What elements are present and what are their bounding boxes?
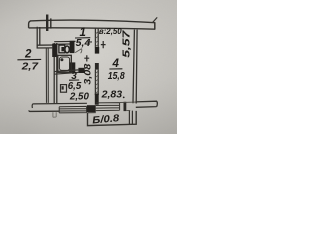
balcony box top edge xyxy=(88,112,96,114)
hallway left wall (room 2) xyxy=(37,27,40,49)
shaft double line left of kitchen xyxy=(46,48,48,103)
room 4 right wall xyxy=(133,30,137,104)
cross tick near room1 bottom xyxy=(84,55,89,61)
bathtub drain xyxy=(60,58,63,61)
svg-text:5,4: 5,4 xyxy=(76,38,91,49)
hallway bottom wall xyxy=(37,45,55,48)
bottom wall bottom line xyxy=(29,110,59,111)
balcony divider double line xyxy=(129,111,132,125)
top wall right break tick xyxy=(153,17,158,22)
top wall thick tick mark 1 xyxy=(46,15,48,32)
left wall faint protrusion below bottom wall xyxy=(53,112,56,117)
svg-text:15,8: 15,8 xyxy=(108,70,125,82)
top wall inner line xyxy=(29,28,155,29)
bathroom left outer wall xyxy=(54,43,57,104)
bathtub outer xyxy=(58,55,72,72)
kitchen/room1 partition black pier xyxy=(78,68,84,73)
balcony window frame xyxy=(96,103,120,111)
bottom wall black pier left of main wall xyxy=(87,105,96,112)
room 4 label underline xyxy=(109,68,122,70)
balcony door jamb dark mark xyxy=(124,102,127,111)
bathroom right wall upper black pier xyxy=(70,41,75,53)
main vertical wall between rooms 1,3 and room 4 : upper double line xyxy=(95,28,98,47)
bathroom left wall black pier xyxy=(52,44,57,57)
bathroom right wall lower black pier xyxy=(69,62,75,73)
room 1 label underline xyxy=(75,37,90,39)
cross tick below height note xyxy=(101,41,106,48)
balcony callout box left/bottom/right xyxy=(88,111,137,126)
main wall black pier xyxy=(95,47,99,54)
dot after 2,83 xyxy=(123,97,125,99)
kitchen window frame xyxy=(59,106,86,113)
main wall hatch xyxy=(95,71,98,94)
bathroom door swing leaf xyxy=(75,49,82,54)
svg-text:3,08: 3,08 xyxy=(82,64,92,85)
svg-text:5,57: 5,57 xyxy=(122,30,133,58)
room 2 label underline / leader xyxy=(17,58,41,60)
dash after 5,4 xyxy=(87,41,92,43)
svg-text:2,83: 2,83 xyxy=(101,89,123,101)
bottom wall left stub top line xyxy=(32,103,87,108)
bottom wall right section to cap xyxy=(136,101,158,107)
bathroom top wall xyxy=(54,41,75,44)
svg-text:2,50: 2,50 xyxy=(69,91,89,103)
stove inner mark xyxy=(62,86,64,89)
toilet bowl xyxy=(65,46,69,53)
paper grain overlay xyxy=(0,0,177,134)
main wall bottom black pier xyxy=(95,94,99,105)
main wall dark pier below door xyxy=(95,63,99,70)
svg-text:в:2,50: в:2,50 xyxy=(99,27,122,36)
balcony door threshold lines xyxy=(120,102,136,110)
svg-text:2,7: 2,7 xyxy=(21,60,40,72)
bathtub inner xyxy=(59,57,69,70)
toilet cistern inner dark xyxy=(61,47,64,51)
main vertical wall lower double line xyxy=(95,70,98,95)
main wall upper hatch xyxy=(95,32,98,47)
svg-text:2: 2 xyxy=(24,49,32,61)
stove symbol xyxy=(61,85,67,93)
room 3 label underline xyxy=(69,79,79,81)
bathroom bottom wall xyxy=(54,70,78,74)
toilet cistern xyxy=(59,45,65,53)
top wall right end cap xyxy=(154,22,156,29)
top wall outer line xyxy=(29,20,155,28)
top wall thin tick mark 2 xyxy=(50,18,52,28)
svg-text:4: 4 xyxy=(111,58,119,70)
